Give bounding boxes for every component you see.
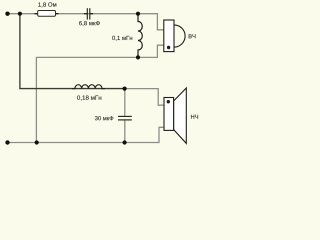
node E bottom rail right bbox=[123, 140, 127, 144]
wire HF return node B to bottom rail bbox=[36, 45, 163, 142]
node junction top-left bbox=[18, 12, 22, 16]
value label 0,18 мГн bbox=[77, 95, 101, 100]
wire LF feed (dark) bbox=[20, 14, 125, 89]
label НЧ woofer bbox=[191, 115, 198, 119]
inductor L2 0,18 мГн bbox=[72, 85, 105, 89]
terminal input minus bbox=[5, 140, 9, 144]
inductor L1 0,1 мГн bbox=[138, 14, 142, 58]
speaker НЧ (woofer) bbox=[174, 88, 187, 143]
value label 1,8 Ом bbox=[38, 2, 56, 7]
node B bbox=[136, 55, 140, 59]
value label 6,8 мкФ bbox=[79, 21, 100, 26]
wire capacitor C2 branch bbox=[124, 89, 126, 116]
node A bbox=[136, 12, 140, 16]
node D bottom rail left bbox=[35, 140, 39, 144]
node C bbox=[123, 87, 127, 91]
terminal input plus bbox=[5, 12, 9, 16]
wire node C to woofer bbox=[125, 89, 164, 106]
capacitor C1 6,8 мкФ bbox=[84, 13, 87, 15]
wire bottom rail bbox=[8, 127, 165, 142]
resistor R1 1,8 Ом bbox=[35, 13, 38, 15]
value label 30 мкФ bbox=[95, 116, 113, 120]
value label 0,1 мГн bbox=[112, 36, 132, 41]
label ВЧ tweeter bbox=[189, 34, 196, 38]
capacitor C2 30 мкФ bbox=[118, 115, 132, 117]
speaker ВЧ (tweeter) bbox=[174, 25, 185, 47]
wire top rail bbox=[8, 14, 164, 30]
